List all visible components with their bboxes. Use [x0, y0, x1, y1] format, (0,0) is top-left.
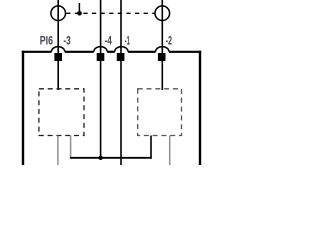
component box top edge segment 4	[128, 51, 156, 53]
wire pin -2 into right relay block	[161, 61, 163, 90]
wire pin -4 down to junction	[100, 61, 102, 158]
gray lead left block pin b	[70, 136, 72, 159]
component box left edge	[22, 51, 24, 165]
connector bump arc pin -4	[94, 47, 107, 52]
component box top edge segment 3	[107, 51, 115, 53]
component box top edge segment 5	[169, 51, 201, 53]
wire pin -3 into left relay block	[57, 61, 59, 90]
gray lead left block pin a	[57, 136, 59, 166]
svg-text:-2: -2	[166, 33, 173, 47]
connector bump arc pin -2	[156, 47, 169, 52]
bottom horizontal wire	[70, 157, 152, 159]
junction dot bottom wire	[98, 156, 102, 160]
connector circle on pin -3 wire	[51, 6, 66, 21]
dashed link line between circles	[66, 12, 155, 14]
gray lead right block pin b	[169, 136, 171, 166]
connector bump arc pin -1	[115, 47, 128, 52]
svg-text:PI6: PI6	[40, 33, 53, 47]
terminal square pin -1	[117, 53, 125, 61]
left relay block dashed outline	[39, 89, 84, 136]
wire pin -1 down to bottom	[120, 61, 122, 165]
svg-text:-1: -1	[125, 33, 130, 47]
component box top edge segment 2	[65, 51, 94, 53]
svg-text:-4: -4	[105, 33, 112, 47]
wire pin -4 top vertical	[100, 0, 102, 53]
connector circle on pin -2 wire	[155, 6, 170, 21]
component box top edge segment 1	[22, 51, 52, 53]
junction dot on link line	[77, 11, 82, 16]
tick mark on link line	[78, 3, 80, 13]
wire pin -3 top vertical	[57, 0, 59, 53]
component box right edge	[199, 51, 201, 165]
wire pin -1 top vertical	[120, 0, 122, 53]
wire pin -2 top vertical	[161, 0, 163, 53]
right block lead down	[150, 136, 152, 159]
right relay block dashed outline	[138, 89, 182, 136]
svg-text:-3: -3	[63, 33, 70, 47]
terminal square pin -4	[97, 53, 105, 61]
terminal square pin -3	[54, 53, 62, 61]
connector bump arc pin -3	[51, 47, 64, 52]
terminal square pin -2	[158, 53, 166, 61]
